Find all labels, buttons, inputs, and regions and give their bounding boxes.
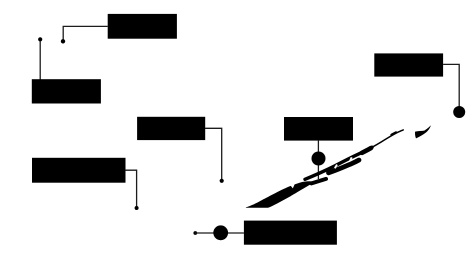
leader line L3 elbow from box B3 xyxy=(205,128,222,179)
endpoint dot of L1 xyxy=(61,39,65,43)
label box B3 (middle) xyxy=(137,117,205,140)
blade tail slight thickening xyxy=(392,132,397,134)
label box B2 (upper left) xyxy=(32,79,101,103)
large dot on L7 xyxy=(213,225,228,240)
blade thin tail line xyxy=(372,130,403,147)
detached blade tip (brush-tip checkmark) xyxy=(415,125,431,138)
endpoint dot of L2 xyxy=(38,37,42,41)
blade lower stroke segment A xyxy=(312,179,327,184)
large dot on L6 xyxy=(312,152,326,166)
label box B6 (middle right) xyxy=(284,117,353,141)
large endpoint dot of L5 xyxy=(453,106,465,118)
blade white slash on U stroke xyxy=(334,164,338,169)
blade lower stroke segment B xyxy=(329,160,360,173)
blade U thick clump xyxy=(362,148,371,153)
label box B7 (bottom) xyxy=(244,221,337,245)
label box B1 (top) xyxy=(108,14,177,39)
leader line L5 elbow from box B5 xyxy=(443,64,459,107)
leader line L7 to box B7 xyxy=(195,232,244,234)
small endpoint dot of L7 xyxy=(193,231,197,235)
blade white dry-brush notch W1 on wedge xyxy=(290,182,295,188)
blade white slash on U stroke 2 xyxy=(349,157,352,161)
leader line L1 elbow from box B1 xyxy=(63,26,107,40)
leader line L2 down to box B2 xyxy=(39,41,41,80)
blade heavy wedge (lower-left brush mass) xyxy=(246,181,315,208)
blade upper thin stroke U xyxy=(305,147,372,179)
leader line L4 elbow from box B4 xyxy=(125,170,136,206)
endpoint dot of L3 xyxy=(220,179,224,183)
leader line L6 down from box B6 xyxy=(317,140,319,179)
label box B4 (lower left) xyxy=(32,158,126,183)
label box B5 (upper right) xyxy=(374,53,443,76)
endpoint dot of L4 xyxy=(135,206,139,210)
